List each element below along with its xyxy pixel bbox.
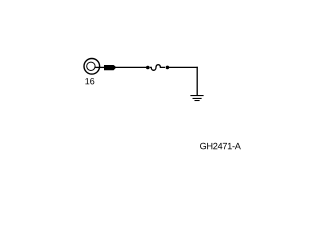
connector eyelet inner circle [87,62,95,70]
ground bar 3 [195,100,200,101]
splice dot left [146,66,150,70]
wire terminal to splice dot [115,66,147,68]
resistive wire squiggle [150,65,165,71]
male terminal bar [104,65,116,70]
figure number GH2471-A [200,143,241,149]
ground bar 2 [193,98,202,99]
ground bar 1 [190,95,203,96]
splice dot right [166,66,170,70]
wire circle to terminal [95,66,105,68]
bulb/connector eyelet outer circle [84,59,100,75]
wire to corner [169,66,198,68]
wire down to ground [196,67,198,96]
pin label 16 [85,78,94,84]
